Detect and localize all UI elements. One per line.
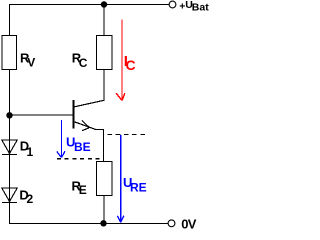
wire base horizontal xyxy=(10,114,74,116)
wire left vertical xyxy=(9,70,11,224)
transistor Q1 base bar xyxy=(73,100,75,129)
dashed line emitter node xyxy=(108,133,146,135)
svg-text:BE: BE xyxy=(74,140,91,154)
node base junction dot xyxy=(6,112,12,118)
svg-text:C: C xyxy=(79,56,88,70)
terminal +UBat circle xyxy=(169,1,176,8)
svg-text:E: E xyxy=(79,183,87,197)
transistor Q1 emitter arrow xyxy=(82,121,89,131)
svg-text:V: V xyxy=(27,56,35,70)
resistor RV xyxy=(2,36,17,70)
terminal 0V circle xyxy=(168,220,175,227)
svg-text:RE: RE xyxy=(130,180,147,194)
wire top rail xyxy=(9,4,169,6)
wire top-left vertical xyxy=(9,5,11,36)
node top junction dot xyxy=(101,1,107,7)
node bottom junction dot xyxy=(100,220,106,226)
svg-text:C: C xyxy=(126,57,136,73)
diode D1 xyxy=(2,140,17,155)
svg-text:0V: 0V xyxy=(181,216,196,231)
arrow IC (red) xyxy=(116,20,125,101)
arrow UBE (blue) xyxy=(57,120,65,157)
arrow URE (blue) xyxy=(117,135,123,223)
svg-text:Bat: Bat xyxy=(192,2,209,14)
dashed line UBE bottom xyxy=(57,158,103,160)
resistor RE xyxy=(97,162,113,196)
svg-text:2: 2 xyxy=(27,192,34,206)
wire below RE xyxy=(103,196,105,224)
transistor Q1 collector lead xyxy=(74,70,105,108)
wire bottom rail xyxy=(9,222,168,224)
transistor Q1 emitter lead xyxy=(74,122,104,162)
diode D2 xyxy=(2,188,17,203)
svg-text:1: 1 xyxy=(27,145,34,159)
resistor RC xyxy=(97,36,113,70)
wire top-right vertical xyxy=(103,5,105,36)
